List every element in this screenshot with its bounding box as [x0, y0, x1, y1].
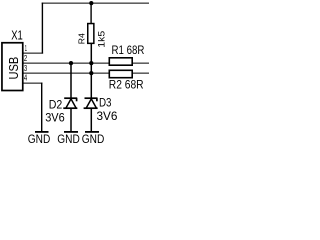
svg-text:3: 3	[24, 64, 28, 73]
svg-text:R4: R4	[78, 32, 87, 44]
zener diode D2 symbol	[63, 98, 77, 108]
wire D3 to ground	[90, 108, 92, 131]
wire R2 right stub	[132, 72, 149, 74]
connector X1 body	[2, 43, 23, 91]
junction dot top	[89, 1, 93, 5]
resistor R4 lead top	[90, 3, 92, 23]
wire D- (pin2)	[23, 62, 110, 64]
svg-text:GND: GND	[57, 132, 80, 143]
svg-text:3V6: 3V6	[97, 109, 118, 123]
wire pin1 stub	[23, 52, 43, 54]
svg-text:USB: USB	[6, 57, 21, 80]
resistor R1 body	[109, 58, 132, 65]
resistor R4 lead bottom through wires to D3	[90, 44, 92, 99]
ground symbol 1 bar	[35, 131, 49, 133]
svg-text:R1 68R: R1 68R	[112, 43, 145, 57]
resistor R2 body	[109, 70, 132, 77]
svg-text:D2: D2	[49, 98, 63, 112]
svg-text:R2 68R: R2 68R	[109, 77, 144, 91]
wire R1 right stub	[132, 62, 149, 64]
wire pin4 stub	[23, 82, 43, 84]
zener diode D3 symbol	[84, 98, 98, 108]
svg-text:4: 4	[24, 74, 28, 83]
svg-text:D3: D3	[99, 96, 112, 110]
wire D+ (pin3)	[23, 72, 110, 74]
svg-text:3V6: 3V6	[45, 111, 65, 125]
ground symbol 3 bar	[85, 131, 99, 133]
svg-text:X1: X1	[11, 29, 23, 43]
zener diode D2 lead from D- wire	[70, 63, 72, 98]
junction dot D- / R4	[89, 61, 93, 65]
wire pin1 vertical up	[41, 3, 43, 54]
resistor R4 body	[88, 24, 94, 44]
svg-text:2: 2	[24, 54, 28, 63]
svg-text:1k5: 1k5	[97, 31, 108, 48]
ground symbol 2 bar	[64, 131, 78, 133]
wire VCC top	[42, 2, 149, 4]
svg-text:GND: GND	[82, 132, 105, 143]
junction dot D- / D2	[69, 61, 73, 65]
svg-text:GND: GND	[28, 132, 51, 143]
svg-text:1: 1	[25, 44, 27, 53]
wire D2 to ground	[70, 108, 72, 131]
wire pin4 vertical down to ground	[41, 83, 43, 132]
junction dot D+ / D3	[89, 71, 93, 75]
